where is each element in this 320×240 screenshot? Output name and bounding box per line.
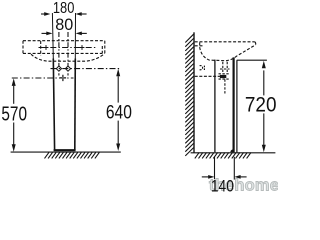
svg-text:140: 140 [211,178,234,196]
pedestal right edge extended up (front view) [74,13,76,59]
tap hole centerline horizontal [39,47,97,49]
wall hatching [185,34,193,156]
dimension 640 [116,69,120,151]
pedestal heel [230,149,233,152]
rim front projection line (vertical) [236,60,238,152]
floor line (front view) [11,151,121,153]
drain center cross [60,75,66,81]
dimension 720 [262,61,266,152]
pedestal back edge (side view) [214,60,216,153]
tap deck dash near wall [195,45,204,47]
svg-text:720: 720 [245,94,277,117]
svg-text:570: 570 [1,104,27,126]
trap body solid [220,75,226,78]
tap hole cross right [80,45,85,50]
dimension line 140 [202,175,247,179]
drain outlet dashed line to wall [195,75,221,77]
fixing bracket colon marks [203,66,205,70]
reference line 640 (dash-dot) [51,68,121,70]
pedestal left edge extended up (front view) [51,13,54,59]
dimension line 180 [41,12,87,16]
basin bowl profile (dashed) [200,42,256,60]
trap top dash [219,73,230,75]
pedestal front edge (side view) [233,57,235,152]
dimension 570 [12,78,16,151]
fixing centerline right (vertical dash-dot) [67,32,69,76]
svg-text:80: 80 [55,15,73,34]
basin rim front hook (dashed) [254,42,257,45]
rim height reference line (horizontal) [237,59,267,61]
wall line [193,32,195,153]
basin top edge (side view, dashed) [195,41,255,43]
fixing hole diamond left [56,66,61,71]
floor line (side view) [191,152,276,154]
dimension line 80 [42,32,87,36]
fixing centerline left (vertical dash-dot) [58,32,60,76]
basin bowl underside dashed curve (front view) [31,53,105,61]
basin bowl left corner dashed vertical [40,41,42,56]
drain pipe dashed verticals [222,62,224,74]
pedestal bottom (front view) [54,149,76,151]
trap bottom dash [219,78,230,80]
fixing hole diamond right [65,66,70,71]
floor hatching (front view) [45,152,100,158]
trap leg dashed [224,79,226,93]
svg-text:640: 640 [106,101,132,123]
140 extension line right [233,157,235,180]
basin rim dashed rectangle (front view) [23,41,105,54]
fixing bracket arc [200,66,203,70]
trap upper bulge dash [220,68,230,70]
floor hatching (side view) [195,152,251,158]
basin bowl right corner dashed vertical [101,46,103,53]
tap hole cross left [44,45,49,50]
reference line 570 (dash-dot) [12,77,74,79]
140 extension line left [214,157,216,179]
